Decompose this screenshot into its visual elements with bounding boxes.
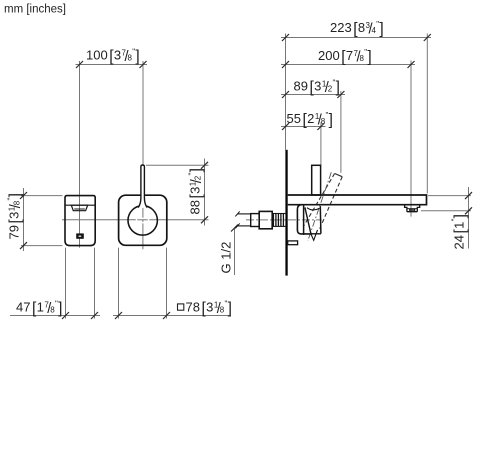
svg-text:100[37/8"]: 100[37/8"] [86,48,140,66]
svg-text:78[31/8"]: 78[31/8"] [186,300,232,318]
svg-text:200[77/8"]: 200[77/8"] [318,48,372,66]
svg-text:89[31/2"]: 89[31/2"] [294,79,340,97]
svg-text:88[31/2"]: 88[31/2"] [188,168,206,214]
svg-text:G 1/2: G 1/2 [219,242,234,274]
svg-text:24[1"]: 24[1"] [451,214,470,249]
svg-text:47[17/8"]: 47[17/8"] [16,300,62,318]
svg-text:55[21/8"]: 55[21/8"] [287,111,333,129]
svg-text:mm [inches]: mm [inches] [4,4,66,16]
svg-text:79[31/8"]: 79[31/8"] [7,193,25,239]
svg-text:223[83/4"]: 223[83/4"] [330,20,384,38]
